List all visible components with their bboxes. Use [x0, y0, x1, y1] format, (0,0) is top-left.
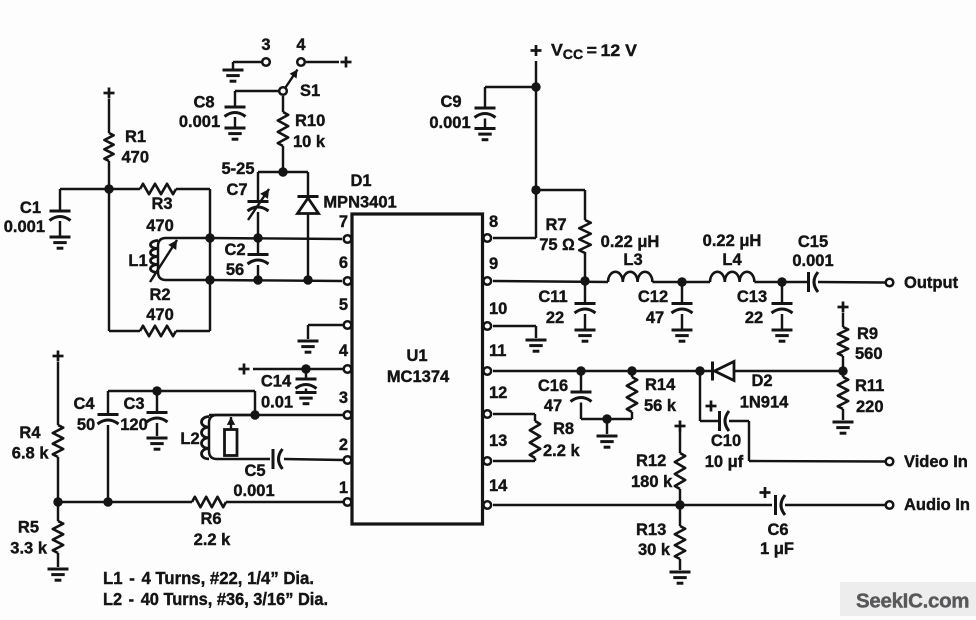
svg-text:2.2 k: 2.2 k: [543, 442, 581, 460]
svg-text:C8: C8: [193, 94, 214, 112]
svg-text:30 k: 30 k: [638, 541, 671, 559]
svg-text:7: 7: [339, 213, 348, 231]
svg-text:1N914: 1N914: [740, 393, 789, 411]
svg-text:0.001: 0.001: [233, 482, 274, 500]
svg-text:R7: R7: [545, 216, 566, 234]
svg-text:22: 22: [546, 309, 564, 327]
svg-text:0.001: 0.001: [4, 218, 45, 236]
svg-text:75 Ω: 75 Ω: [539, 236, 575, 254]
svg-text:C12: C12: [638, 288, 668, 306]
svg-text:3.3 k: 3.3 k: [10, 539, 48, 557]
svg-text:C13: C13: [737, 288, 767, 306]
svg-text:470: 470: [122, 149, 150, 167]
svg-text:470: 470: [146, 217, 174, 235]
svg-text:Audio In: Audio In: [904, 496, 970, 514]
svg-text:3: 3: [339, 389, 348, 407]
svg-text:L1: L1: [128, 252, 147, 270]
svg-text:C3: C3: [123, 395, 144, 413]
svg-text:0.001: 0.001: [792, 252, 833, 270]
svg-text:L3: L3: [623, 251, 642, 269]
svg-text:C10: C10: [711, 432, 741, 450]
svg-text:56: 56: [226, 261, 244, 279]
svg-text:R9: R9: [857, 325, 878, 343]
svg-text:0.01: 0.01: [261, 394, 293, 412]
svg-text:R11: R11: [855, 377, 884, 395]
svg-text:50: 50: [77, 416, 95, 434]
svg-text:D2: D2: [751, 372, 772, 390]
svg-text:R2: R2: [149, 286, 170, 304]
svg-text:6.8 k: 6.8 k: [12, 445, 50, 463]
svg-text:U1: U1: [406, 347, 427, 365]
svg-text:47: 47: [646, 309, 664, 327]
svg-text:470: 470: [146, 306, 174, 324]
svg-text:8: 8: [489, 213, 498, 231]
svg-text:1 μF: 1 μF: [760, 540, 794, 558]
svg-text:0.001: 0.001: [429, 114, 470, 132]
svg-text:4: 4: [296, 36, 306, 54]
svg-text:180 k: 180 k: [631, 473, 673, 491]
svg-text:R6: R6: [200, 510, 221, 528]
svg-text:5-25: 5-25: [221, 160, 254, 178]
svg-text:R4: R4: [19, 424, 41, 442]
svg-text:C5: C5: [244, 462, 265, 480]
svg-text:L2 - 40 Turns, #36, 3/16” Di: L2 - 40 Turns, #36, 3/16” Dia.: [103, 589, 328, 609]
svg-text:C11: C11: [538, 288, 567, 306]
svg-text:56 k: 56 k: [644, 397, 677, 415]
svg-text:10: 10: [489, 300, 507, 318]
svg-text:R5: R5: [18, 519, 39, 537]
svg-text:9: 9: [489, 255, 498, 273]
svg-text:R8: R8: [553, 420, 574, 438]
svg-text:R1: R1: [125, 128, 146, 146]
svg-text:11: 11: [489, 342, 506, 360]
svg-text:1: 1: [339, 479, 348, 497]
svg-text:4: 4: [339, 342, 349, 360]
svg-text:120: 120: [120, 416, 148, 434]
svg-text:47: 47: [544, 397, 562, 415]
svg-text:C9: C9: [440, 93, 461, 111]
svg-text:14: 14: [489, 477, 508, 495]
svg-text:R12: R12: [636, 452, 666, 470]
svg-text:C14: C14: [261, 372, 292, 390]
svg-text:13: 13: [489, 432, 507, 450]
svg-text:12: 12: [489, 384, 507, 402]
svg-text:C1: C1: [20, 199, 41, 217]
svg-text:D1: D1: [350, 172, 371, 190]
svg-text:L1 - 4 Turns, #22, 1/4” Dia.: L1 - 4 Turns, #22, 1/4” Dia.: [103, 568, 314, 588]
svg-text:3: 3: [261, 36, 270, 54]
svg-text:C7: C7: [226, 181, 247, 199]
svg-text:560: 560: [855, 345, 883, 363]
svg-text:2: 2: [339, 436, 348, 454]
svg-text:6: 6: [339, 254, 348, 272]
svg-text:R13: R13: [636, 521, 666, 539]
svg-text:L4: L4: [722, 251, 742, 269]
svg-text:5: 5: [339, 296, 348, 314]
svg-text:R10: R10: [295, 112, 325, 130]
svg-text:S1: S1: [300, 82, 320, 100]
svg-text:MPN3401: MPN3401: [323, 194, 396, 212]
svg-text:2.2 k: 2.2 k: [194, 531, 232, 549]
svg-text:Output: Output: [904, 274, 959, 292]
svg-text:10 μf: 10 μf: [705, 453, 744, 471]
svg-text:C6: C6: [767, 521, 788, 539]
svg-text:L2: L2: [180, 430, 199, 448]
svg-text:C16: C16: [538, 377, 568, 395]
svg-text:Video In: Video In: [904, 453, 968, 471]
svg-text:22: 22: [745, 309, 763, 327]
svg-text:0.001: 0.001: [179, 113, 220, 131]
svg-text:R14: R14: [645, 376, 676, 394]
svg-text:0.22 μH: 0.22 μH: [703, 232, 762, 250]
svg-text:C2: C2: [224, 241, 245, 259]
svg-text:R3: R3: [151, 195, 172, 213]
svg-text:C4: C4: [73, 395, 95, 413]
svg-text:SeekIC.com: SeekIC.com: [856, 590, 969, 613]
svg-text:0.22 μH: 0.22 μH: [601, 233, 660, 251]
svg-text:10 k: 10 k: [293, 133, 326, 151]
svg-text:C15: C15: [798, 233, 828, 251]
svg-text:220: 220: [856, 398, 884, 416]
svg-text:MC1374: MC1374: [387, 368, 450, 386]
